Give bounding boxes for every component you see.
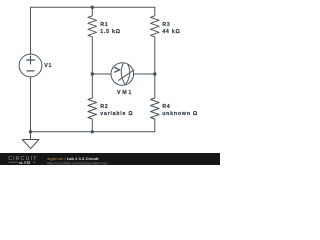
wire VM1 right: [134, 73, 155, 75]
CircuitLab logo: [8, 156, 37, 165]
voltmeter VM1: [111, 63, 134, 86]
resistor R3: [151, 7, 160, 74]
svg-text:V1: V1: [44, 63, 52, 69]
voltage source V1: [19, 54, 42, 77]
wire top rail: [31, 6, 155, 8]
svg-text:◂LAB: ◂LAB: [18, 160, 31, 165]
svg-text:R4: R4: [162, 104, 170, 110]
node VM1 right junction: [153, 72, 156, 75]
resistor R4: [151, 74, 160, 132]
watermark bar: [0, 153, 220, 165]
wire left column lower (V1 bottom lead): [30, 77, 32, 132]
node R2 bottom junction: [91, 130, 94, 133]
ground: [30, 132, 32, 140]
svg-text:R2: R2: [100, 104, 108, 110]
svg-text:http:∕∕circuitlab.com∕c6qwjpc4: http:∕∕circuitlab.com∕c6qwjpc48a7mw∕: [47, 161, 108, 165]
node top junction: [91, 6, 94, 9]
wire left column upper (V1 top lead): [30, 7, 32, 54]
svg-text:R1: R1: [100, 22, 108, 28]
svg-text:VM1: VM1: [117, 90, 133, 96]
resistor R2: [88, 74, 97, 132]
node VM1 left junction: [91, 72, 94, 75]
resistor R1: [88, 7, 97, 74]
svg-text:variable Ω: variable Ω: [100, 111, 133, 117]
svg-text:44 kΩ: 44 kΩ: [162, 29, 180, 35]
wire bottom rail: [31, 131, 155, 133]
wire VM1 left: [92, 73, 111, 75]
svg-text:R3: R3: [162, 22, 170, 28]
svg-text:1.5 kΩ: 1.5 kΩ: [100, 29, 121, 35]
svg-text:algernon / Lab 2 3.3 Circuit: algernon / Lab 2 3.3 Circuit: [47, 156, 99, 161]
svg-text:unknown Ω: unknown Ω: [162, 111, 198, 117]
watermark title line: [47, 156, 108, 165]
node ground junction: [29, 130, 32, 133]
